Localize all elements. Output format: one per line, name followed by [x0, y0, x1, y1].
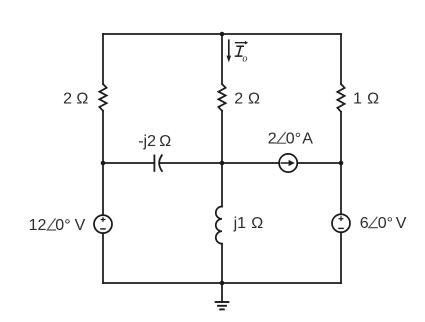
svg-text:0°: 0° [378, 215, 393, 232]
capacitor C1 -j2Ω [154, 155, 162, 171]
svg-text:2: 2 [63, 91, 72, 108]
label: -j2 Ω (capacitor) [138, 133, 171, 150]
svg-text:0°: 0° [286, 130, 301, 147]
current arrow Io [227, 40, 232, 62]
ground [216, 283, 229, 309]
node: junction dot right (right rail / middle row) [339, 161, 344, 166]
wire: right rail middle [340, 112, 342, 215]
label: 2 Ω (left resistor) [63, 91, 88, 108]
svg-text:Ω: Ω [367, 91, 379, 108]
wire: left rail lower [102, 233, 104, 283]
wire: middle rail between resistor and middle node [221, 111, 223, 163]
svg-text:o: o [242, 54, 247, 65]
label: 12∠0° V (left voltage source) [29, 217, 86, 234]
wire: middle row right segment [297, 162, 341, 164]
label: Io (current arrow label) [236, 46, 248, 64]
wire: right rail lower [340, 232, 342, 283]
svg-text:2: 2 [268, 130, 277, 147]
wire: bottom rail [103, 282, 341, 284]
label: j1 Ω (inductor) [233, 215, 264, 232]
node: junction dot bottom (middle rail / bottom rail) [220, 281, 225, 286]
label: 1 Ω (right resistor) [353, 91, 379, 108]
node: junction dot center (middle rail / middle row) [220, 161, 225, 166]
svg-text:-j2: -j2 [138, 133, 156, 150]
node: junction dot top (middle rail / top rail) [220, 32, 225, 37]
resistor R1 2Ω (left) [99, 84, 106, 111]
svg-text:6: 6 [360, 215, 369, 232]
inductor L1 j1Ω [216, 207, 222, 244]
svg-text:Ω: Ω [159, 133, 171, 150]
node: junction dot left (left rail / middle row) [101, 161, 106, 166]
label: 2∠0° A (current source) [268, 130, 313, 147]
svg-text:Ω: Ω [76, 91, 88, 108]
resistor R2 2Ω (middle) [218, 84, 225, 111]
wire: middle rail below inductor [221, 244, 223, 283]
svg-text:1: 1 [353, 91, 362, 108]
svg-text:Ω: Ω [251, 215, 263, 232]
vector bar over Io [235, 41, 248, 45]
wire: middle rail between middle node and inductor [221, 163, 223, 207]
svg-text:12: 12 [29, 217, 47, 234]
svg-text:V: V [396, 215, 407, 232]
wire: middle row left segment [103, 162, 154, 164]
label: 2 Ω (middle resistor) [234, 91, 260, 108]
svg-text:V: V [75, 217, 86, 234]
wire: right rail upper [340, 34, 342, 84]
label: 6∠0° V (right voltage source) [360, 215, 407, 232]
voltage source V2 6∠0° [332, 214, 350, 232]
svg-text:Ω: Ω [248, 91, 260, 108]
wire: top rail [103, 33, 341, 35]
current source I1 2∠0° [279, 154, 297, 172]
svg-text:2: 2 [234, 91, 243, 108]
wire: middle row center segment [161, 162, 279, 164]
voltage source V1 12∠0° [94, 215, 112, 233]
svg-text:j1: j1 [233, 215, 247, 232]
svg-text:A: A [302, 130, 313, 147]
wire: left rail upper [102, 34, 104, 84]
wire: left rail middle [102, 111, 104, 215]
svg-text:0°: 0° [55, 217, 70, 234]
resistor R3 1Ω (right) [337, 84, 344, 112]
wire: middle rail top stub [221, 34, 223, 84]
